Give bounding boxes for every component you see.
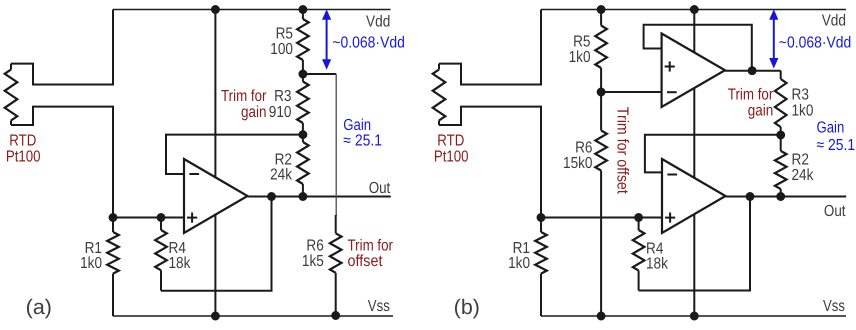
op-amp U3 (b) minus glyph xyxy=(667,174,677,176)
svg-text:Vdd: Vdd xyxy=(366,14,390,31)
junction Vdd rail / R5 (b) xyxy=(597,5,606,14)
annotation arrow ~0.068 Vdd (a) xyxy=(322,9,331,70)
svg-text:R2: R2 xyxy=(792,152,809,169)
wire Vss rail (a) xyxy=(113,315,393,317)
op-amp U2 (b) xyxy=(662,34,725,108)
svg-text:1k5: 1k5 xyxy=(302,253,324,270)
svg-text:~0.068·Vdd: ~0.068·Vdd xyxy=(332,35,405,52)
svg-text:R5: R5 xyxy=(276,26,293,43)
svg-text:gain: gain xyxy=(241,104,267,121)
svg-text:18k: 18k xyxy=(169,255,192,272)
junction output / R4 loop (b) xyxy=(746,192,755,201)
svg-text:Vss: Vss xyxy=(368,298,390,315)
resistor RTD sensor (a) xyxy=(5,64,18,125)
svg-text:100: 100 xyxy=(270,41,293,58)
svg-text:(a): (a) xyxy=(26,296,52,319)
svg-text:≈ 25.1: ≈ 25.1 xyxy=(343,133,382,150)
wire non-inverting input line U3 (b) xyxy=(541,217,662,219)
wire stub R5/R3 node to offset branch (a) xyxy=(303,73,336,75)
svg-text:Vdd: Vdd xyxy=(822,13,846,30)
op-amp U2 (b) plus glyph xyxy=(665,61,675,71)
svg-text:Trim for: Trim for xyxy=(348,238,394,255)
annotation arrow ~0.068 Vdd (b) xyxy=(769,9,778,68)
resistor R6 (a) xyxy=(330,215,342,316)
svg-text:910: 910 xyxy=(269,104,292,121)
wire Vdd rail (b) xyxy=(541,9,846,11)
svg-text:R3: R3 xyxy=(274,88,291,105)
svg-text:18k: 18k xyxy=(646,256,669,273)
svg-text:1k0: 1k0 xyxy=(569,49,591,66)
junction Vss rail / R6 (b) xyxy=(597,312,606,321)
wire non-inverting input line (a) xyxy=(113,217,184,219)
resistor R3 (b) xyxy=(775,71,787,135)
svg-text:Vss: Vss xyxy=(823,298,845,315)
junction Vss rail / R6 (a) xyxy=(331,311,340,320)
junction R4 top / +input (b) xyxy=(634,213,643,222)
junction Vdd rail / vertical (b) xyxy=(690,5,699,14)
svg-text:1k0: 1k0 xyxy=(792,103,814,120)
wire Vss rail (b) xyxy=(541,315,846,317)
wire RTD(a) top lead to Vdd rail riser xyxy=(11,10,113,85)
op-amp U1 (a) minus glyph xyxy=(189,173,199,175)
junction Vss rail / vertical (a) xyxy=(211,312,220,321)
op-amp U2 (b) minus glyph xyxy=(667,91,677,93)
svg-text:(b): (b) xyxy=(454,296,480,319)
svg-text:≈ 25.1: ≈ 25.1 xyxy=(817,137,856,154)
resistor R6 (b) xyxy=(595,92,607,316)
wire U2 buffer feedback box (b) xyxy=(644,25,752,71)
wire U3 inverting feedback to R3/R2 node (b) xyxy=(645,135,781,173)
op-amp U1 (a) xyxy=(184,159,248,233)
resistor R4 (a) xyxy=(155,218,167,291)
junction U2 output / feedback / R3 (b) xyxy=(748,66,757,75)
junction R5/R3 divider node (a) xyxy=(298,70,307,79)
wire R4 bottom loop to output (a) xyxy=(161,197,272,291)
wire RTD(b) top lead to Vdd rail riser xyxy=(439,10,541,85)
junction Vdd rail / vertical (a) xyxy=(211,5,220,14)
junction R1 top / +input (b) xyxy=(537,213,546,222)
junction output / R4 loop (a) xyxy=(267,192,276,201)
resistor R1 (b) xyxy=(535,218,547,317)
resistor RTD sensor (b) xyxy=(433,64,446,125)
svg-text:Out: Out xyxy=(369,180,391,197)
svg-text:1k0: 1k0 xyxy=(80,255,102,272)
resistor R2 (a) xyxy=(297,135,309,197)
resistor R1 (a) xyxy=(107,218,119,317)
svg-text:Out: Out xyxy=(824,203,846,220)
wire divider node to U2 lower input (b) xyxy=(601,91,662,93)
junction R5/R6 divider node (b) xyxy=(597,88,606,97)
svg-text:Trim for: Trim for xyxy=(221,88,267,105)
junction R1 top / +input (a) xyxy=(109,213,118,222)
svg-text:Gain: Gain xyxy=(343,117,371,134)
svg-text:24k: 24k xyxy=(792,167,815,184)
svg-text:R3: R3 xyxy=(792,87,809,104)
junction R3/R2 feedback node (a) xyxy=(298,130,307,139)
svg-text:24k: 24k xyxy=(270,167,293,184)
resistor R4 (b) xyxy=(633,218,645,291)
junction R4 top / +input (a) xyxy=(157,213,166,222)
junction Vdd rail / R5 (a) xyxy=(298,5,307,14)
resistor R5 (a) xyxy=(297,10,309,75)
resistor R5 (b) xyxy=(595,10,607,93)
junction output / R2 (b) xyxy=(776,192,785,201)
wire RTD(b) bottom lead down to R1/+input node xyxy=(439,107,541,218)
svg-text:gain: gain xyxy=(748,103,774,120)
svg-text:1k0: 1k0 xyxy=(508,255,530,272)
wire inverting input feedback to R3/R2 node (a) xyxy=(166,135,303,174)
wire R4 bottom loop to output (b) xyxy=(639,197,750,291)
svg-text:Pt100: Pt100 xyxy=(6,149,41,166)
op-amp U3 (b) xyxy=(662,159,726,233)
op-amp U3 (b) plus glyph xyxy=(665,213,675,223)
svg-text:Gain: Gain xyxy=(817,119,845,136)
wire RTD(a) bottom lead down to R1/+input node xyxy=(11,107,113,218)
wire vertical Vdd-to-Vss (a) behind op-amp U1 xyxy=(214,10,216,317)
svg-text:RTD: RTD xyxy=(9,133,36,150)
op-amp U1 (a) plus glyph xyxy=(187,213,197,223)
wire U2 output to R3 (b) xyxy=(725,70,781,72)
wire thin vertical divider node to R6 (a) xyxy=(335,74,337,216)
wire Out line (a) xyxy=(248,196,391,198)
junction R3/R2 feedback node (b) xyxy=(776,131,785,140)
resistor R3 (a) xyxy=(297,74,309,135)
wire Vdd rail (a) xyxy=(113,9,391,11)
svg-text:Trim for: Trim for xyxy=(728,87,774,104)
svg-text:Pt100: Pt100 xyxy=(434,149,469,166)
svg-text:Trim for offset: Trim for offset xyxy=(614,107,631,194)
svg-text:R6: R6 xyxy=(575,140,592,157)
svg-text:offset: offset xyxy=(348,253,383,270)
svg-text:15k0: 15k0 xyxy=(563,155,593,172)
junction Vss rail / vertical (b) xyxy=(690,312,699,321)
resistor R2 (b) xyxy=(775,135,787,197)
svg-text:RTD: RTD xyxy=(437,133,464,150)
svg-text:~0.068·Vdd: ~0.068·Vdd xyxy=(779,35,852,52)
svg-text:R5: R5 xyxy=(573,34,590,51)
junction output / R2 (a) xyxy=(298,192,307,201)
wire vertical Vdd-to-Vss (b) behind op-amps xyxy=(693,10,695,317)
svg-text:R6: R6 xyxy=(306,238,323,255)
wire Out line (b) xyxy=(726,196,847,198)
